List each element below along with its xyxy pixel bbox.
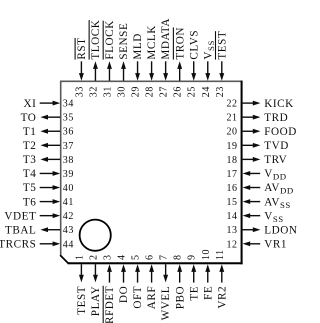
pin 9 TE (bottom, input) bbox=[187, 254, 201, 300]
svg-text:13: 13 bbox=[226, 225, 237, 236]
svg-text:39: 39 bbox=[63, 169, 74, 180]
pin 42 VDET (left, input) bbox=[4, 210, 74, 222]
svg-text:31: 31 bbox=[102, 86, 113, 97]
pin 37 T2 (left, output) bbox=[23, 140, 74, 152]
pin 20 FOOD (right, output) bbox=[226, 126, 296, 138]
svg-text:TO: TO bbox=[21, 112, 37, 124]
svg-text:17: 17 bbox=[226, 169, 237, 180]
svg-text:VR2: VR2 bbox=[216, 286, 228, 309]
svg-text:9: 9 bbox=[187, 254, 198, 260]
pin 5 OFT (bottom, input) bbox=[131, 254, 145, 308]
pin 29 MLD (top, input) bbox=[131, 33, 145, 97]
pin 11 VR2 (bottom, input) bbox=[215, 249, 229, 308]
pin 39 T4 (left, input) bbox=[23, 168, 74, 180]
pin 3 RFDET (bottom, input) bbox=[102, 254, 116, 323]
svg-text:PLAY: PLAY bbox=[90, 286, 102, 316]
svg-text:OFT: OFT bbox=[132, 286, 144, 309]
svg-text:MCLK: MCLK bbox=[146, 25, 158, 60]
svg-text:21: 21 bbox=[226, 113, 237, 124]
svg-text:12: 12 bbox=[226, 239, 237, 250]
svg-text:18: 18 bbox=[226, 155, 237, 166]
pin 27 MDATA (top, input) bbox=[159, 18, 173, 97]
svg-text:30: 30 bbox=[117, 86, 128, 97]
svg-text:LDON: LDON bbox=[264, 224, 297, 236]
svg-text:29: 29 bbox=[131, 86, 142, 97]
pin 24 VSS (top, input) bbox=[201, 40, 216, 97]
svg-text:FE: FE bbox=[202, 286, 214, 300]
svg-text:T6: T6 bbox=[23, 196, 37, 208]
pin 26 TRON (top, output) bbox=[173, 27, 187, 97]
svg-text:26: 26 bbox=[173, 86, 184, 97]
pin 17 VDD (right, input) bbox=[226, 168, 286, 182]
svg-text:XI: XI bbox=[23, 98, 36, 110]
pin 33 RST (top, input) bbox=[74, 37, 88, 97]
svg-text:10: 10 bbox=[201, 249, 212, 260]
svg-text:4: 4 bbox=[117, 254, 128, 260]
svg-text:CLVS: CLVS bbox=[188, 30, 200, 60]
pin 21 TRD (right, output) bbox=[226, 112, 288, 124]
pin 4 DO (bottom, input) bbox=[117, 254, 131, 303]
svg-text:34: 34 bbox=[63, 99, 74, 110]
svg-text:TRD: TRD bbox=[264, 112, 288, 124]
svg-text:3: 3 bbox=[102, 254, 113, 260]
pin 44 TRCRS (left, input) bbox=[0, 239, 74, 251]
pin 7 WVEL (bottom, output) bbox=[159, 254, 173, 320]
pin 38 T3 (left, output) bbox=[23, 154, 74, 166]
svg-text:11: 11 bbox=[215, 249, 226, 260]
svg-text:42: 42 bbox=[63, 211, 74, 222]
svg-text:16: 16 bbox=[226, 183, 237, 194]
svg-text:38: 38 bbox=[63, 155, 74, 166]
svg-text:FOOD: FOOD bbox=[264, 126, 297, 138]
svg-text:23: 23 bbox=[215, 86, 226, 97]
pin 18 TRV (right, output) bbox=[226, 154, 287, 166]
svg-text:43: 43 bbox=[63, 225, 74, 236]
pin 8 PBO (bottom, input) bbox=[173, 254, 187, 309]
svg-text:PBO: PBO bbox=[174, 286, 186, 309]
pin 10 FE (bottom, input) bbox=[201, 249, 215, 300]
svg-text:TVD: TVD bbox=[264, 140, 289, 152]
pin 15 AVSS (right, input) bbox=[226, 196, 290, 210]
svg-text:8: 8 bbox=[173, 254, 184, 260]
svg-text:36: 36 bbox=[63, 127, 74, 138]
svg-text:VR1: VR1 bbox=[264, 239, 287, 251]
pin 34 XI (left, input) bbox=[23, 98, 73, 110]
svg-text:TRON: TRON bbox=[174, 27, 186, 60]
svg-text:T4: T4 bbox=[23, 168, 37, 180]
svg-text:14: 14 bbox=[226, 211, 237, 222]
svg-text:25: 25 bbox=[187, 86, 198, 97]
pin 41 T6 (left, input) bbox=[23, 196, 74, 208]
pin-1 indicator circle bbox=[80, 220, 111, 251]
pin 22 KICK (right, output) bbox=[226, 98, 293, 110]
svg-text:22: 22 bbox=[226, 99, 237, 110]
svg-text:TEST: TEST bbox=[216, 31, 228, 60]
pin 19 TVD (right, output) bbox=[226, 140, 288, 152]
svg-text:FLOCK: FLOCK bbox=[104, 20, 116, 59]
pin 31 FLOCK (top, output) bbox=[102, 20, 116, 97]
svg-text:37: 37 bbox=[63, 141, 74, 152]
pin 2 PLAY (bottom, output) bbox=[88, 254, 102, 316]
svg-text:KICK: KICK bbox=[264, 98, 294, 110]
svg-text:24: 24 bbox=[201, 86, 212, 97]
svg-text:T5: T5 bbox=[23, 182, 37, 194]
svg-text:5: 5 bbox=[131, 254, 142, 260]
svg-text:TRV: TRV bbox=[264, 154, 287, 166]
svg-text:ARF: ARF bbox=[146, 286, 158, 309]
svg-text:T2: T2 bbox=[23, 140, 37, 152]
svg-text:7: 7 bbox=[159, 254, 170, 260]
svg-text:TRCRS: TRCRS bbox=[0, 239, 36, 251]
svg-text:35: 35 bbox=[63, 113, 74, 124]
svg-text:TLOCK: TLOCK bbox=[90, 20, 102, 60]
svg-text:DO: DO bbox=[118, 286, 130, 303]
svg-text:MLD: MLD bbox=[132, 33, 144, 60]
svg-text:RST: RST bbox=[76, 37, 88, 59]
pin 28 MCLK (top, input) bbox=[145, 25, 159, 97]
pin 6 ARF (bottom, input) bbox=[145, 254, 159, 309]
svg-text:33: 33 bbox=[74, 86, 85, 97]
svg-text:32: 32 bbox=[88, 86, 99, 97]
pin 36 T1 (left, output) bbox=[23, 126, 74, 138]
svg-text:28: 28 bbox=[145, 86, 156, 97]
pin 43 TBAL (left, output) bbox=[5, 224, 74, 236]
svg-text:2: 2 bbox=[88, 254, 99, 260]
pin 35 TO (left, output) bbox=[21, 112, 74, 124]
pin 14 VSS (right, input) bbox=[226, 210, 283, 224]
svg-text:WVEL: WVEL bbox=[160, 286, 172, 321]
svg-text:SENSE: SENSE bbox=[118, 23, 130, 60]
svg-text:RFDET: RFDET bbox=[104, 286, 116, 323]
svg-text:20: 20 bbox=[226, 127, 237, 138]
svg-text:TBAL: TBAL bbox=[5, 224, 36, 236]
svg-text:TE: TE bbox=[188, 286, 200, 301]
pin 25 CLVS (top, input) bbox=[187, 30, 201, 97]
svg-text:6: 6 bbox=[145, 254, 156, 260]
pin 23 TEST (top, input) bbox=[215, 31, 229, 98]
pin 12 VR1 (right, input) bbox=[226, 239, 287, 251]
svg-text:44: 44 bbox=[63, 239, 74, 250]
pin 13 LDON (right, output) bbox=[226, 224, 297, 236]
pin 1 TEST (bottom, output) bbox=[74, 254, 88, 314]
pin 30 SENSE (top, output) bbox=[117, 23, 131, 98]
svg-text:T3: T3 bbox=[23, 154, 37, 166]
svg-text:T1: T1 bbox=[23, 126, 37, 138]
svg-text:27: 27 bbox=[159, 86, 170, 97]
IC body U1 (44-pin QFP outline with chamfered pin-1 corner) bbox=[60, 81, 243, 265]
svg-text:VDET: VDET bbox=[4, 210, 36, 222]
svg-text:TEST: TEST bbox=[76, 286, 88, 315]
svg-text:1: 1 bbox=[74, 254, 85, 260]
pin 32 TLOCK (top, output) bbox=[88, 20, 102, 98]
svg-text:MDATA: MDATA bbox=[160, 18, 172, 60]
pin 40 T5 (left, input) bbox=[23, 182, 74, 194]
svg-text:19: 19 bbox=[226, 141, 237, 152]
svg-text:15: 15 bbox=[226, 197, 237, 208]
svg-text:41: 41 bbox=[63, 197, 74, 208]
svg-text:40: 40 bbox=[63, 183, 74, 194]
pin 16 AVDD (right, input) bbox=[226, 182, 293, 196]
